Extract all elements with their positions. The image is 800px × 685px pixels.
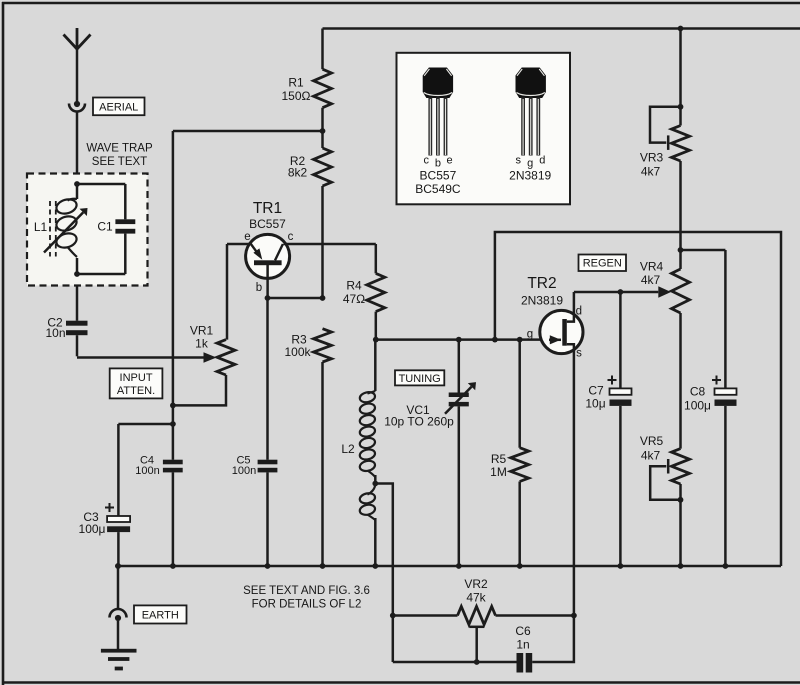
wire TR1 base lead bbox=[266, 265, 269, 298]
svg-text:4k7: 4k7 bbox=[641, 165, 661, 179]
label C6 1n bbox=[515, 624, 531, 652]
node A bbox=[320, 128, 326, 134]
label box TUNING bbox=[395, 370, 444, 385]
capacitor C3 electrolytic bbox=[107, 516, 130, 566]
TO-92 package 2N3819 bbox=[516, 68, 546, 156]
inductor L2 bbox=[359, 340, 376, 484]
svg-text:e: e bbox=[244, 231, 250, 243]
svg-text:ATTEN.: ATTEN. bbox=[117, 385, 155, 397]
svg-text:e: e bbox=[446, 155, 452, 167]
C7 plus sign bbox=[608, 376, 617, 385]
svg-text:c: c bbox=[423, 155, 429, 167]
capacitor C1 bbox=[115, 184, 135, 274]
node R5 top bbox=[517, 337, 523, 343]
label C4 100n bbox=[135, 455, 159, 478]
node C4 ground bbox=[170, 563, 176, 569]
wire VR3-VR4 node to C8 bbox=[681, 249, 726, 252]
potentiometer VR1 bbox=[173, 340, 235, 406]
node R3 ground bbox=[320, 563, 326, 569]
label R1 150&#937; bbox=[282, 76, 311, 104]
resistor R4 bbox=[367, 244, 385, 340]
node VC1 ground bbox=[456, 563, 462, 569]
node C3 branch bbox=[170, 421, 176, 427]
wire bias rail bbox=[172, 131, 175, 460]
label box AERIAL bbox=[93, 98, 145, 116]
svg-text:b: b bbox=[256, 282, 262, 294]
wire C3 branch bbox=[118, 424, 172, 516]
wire TR2 drain bbox=[567, 286, 671, 321]
capacitor C8 electrolytic bbox=[715, 250, 737, 566]
svg-text:INPUT: INPUT bbox=[120, 372, 153, 384]
wire earth return link bbox=[495, 232, 781, 566]
label C3 100&#956; bbox=[79, 510, 106, 536]
label box INPUT ATTEN bbox=[110, 368, 163, 398]
svg-text:TR2: TR2 bbox=[527, 275, 556, 292]
node R4-L2 bbox=[373, 337, 379, 343]
wire C2 to VR1 wiper bbox=[77, 335, 217, 363]
svg-text:10p TO 260p: 10p TO 260p bbox=[384, 415, 454, 429]
label C5 100n bbox=[232, 455, 256, 478]
node VR2 left bbox=[390, 613, 396, 619]
node VR3 top loop bbox=[678, 104, 684, 110]
svg-text:BC549C: BC549C bbox=[415, 182, 461, 196]
svg-text:47k: 47k bbox=[466, 591, 486, 605]
wire ground rail bbox=[118, 565, 781, 568]
svg-text:TUNING: TUNING bbox=[399, 373, 441, 385]
label 2N3819 bbox=[509, 169, 551, 183]
svg-text:4k7: 4k7 bbox=[641, 449, 661, 463]
label C8 100&#956; bbox=[684, 385, 711, 413]
label R2 8k2 bbox=[288, 154, 308, 180]
node gate-ground-link bbox=[492, 337, 498, 343]
svg-text:WAVE TRAP: WAVE TRAP bbox=[86, 143, 153, 155]
label pins c b e bbox=[423, 155, 452, 170]
svg-text:100k: 100k bbox=[284, 345, 311, 359]
svg-text:VR5: VR5 bbox=[640, 434, 664, 448]
svg-text:R1: R1 bbox=[288, 76, 304, 90]
svg-text:FOR DETAILS OF L2: FOR DETAILS OF L2 bbox=[252, 599, 362, 611]
svg-text:AERIAL: AERIAL bbox=[99, 101, 138, 113]
wire VR3 to VR4 bbox=[679, 161, 682, 269]
variable capacitor VC1 bbox=[445, 340, 476, 566]
label L1 bbox=[34, 220, 48, 234]
node L2 tap bbox=[372, 481, 378, 487]
node wave trap bottom bbox=[74, 271, 80, 277]
node VR1 bottom to rail bbox=[170, 403, 176, 409]
resistor R3 bbox=[314, 329, 332, 566]
node earth rail left bbox=[115, 563, 121, 569]
label C7 10&#956; bbox=[585, 384, 605, 411]
potentiometer VR5 bbox=[650, 449, 689, 566]
svg-text:C6: C6 bbox=[515, 624, 531, 638]
capacitor C4 bbox=[163, 460, 183, 566]
svg-text:100n: 100n bbox=[232, 465, 256, 477]
wire TR1 emitter bbox=[227, 244, 250, 340]
L1 adjustable core dashed lines bbox=[50, 201, 56, 257]
node L2 ground bbox=[372, 563, 378, 569]
label SEE TEXT note bbox=[243, 585, 370, 611]
resistor R1 bbox=[314, 29, 332, 132]
label TR2 pins bbox=[527, 306, 582, 360]
label VC1 value bbox=[384, 403, 454, 429]
potentiometer VR3 bbox=[650, 29, 690, 162]
svg-text:4k7: 4k7 bbox=[641, 273, 661, 287]
svg-text:VR3: VR3 bbox=[640, 151, 664, 165]
node VC1 top bbox=[456, 337, 462, 343]
node VR5 ground bbox=[678, 563, 684, 569]
svg-text:47Ω: 47Ω bbox=[343, 292, 365, 306]
svg-text:VR2: VR2 bbox=[464, 577, 488, 591]
resistor R2 bbox=[314, 131, 332, 298]
svg-text:C7: C7 bbox=[588, 384, 604, 398]
L1 adjust arrow bbox=[44, 208, 88, 253]
label VR3 4k7 bbox=[640, 151, 664, 179]
svg-text:8k2: 8k2 bbox=[288, 166, 308, 180]
earth terminal socket bbox=[110, 566, 127, 621]
svg-text:L1: L1 bbox=[34, 220, 48, 234]
label BC557 BC549C bbox=[415, 169, 461, 196]
label TR1 pins bbox=[244, 231, 293, 294]
node C3 ground bbox=[115, 563, 121, 569]
svg-text:SEE TEXT: SEE TEXT bbox=[92, 156, 147, 168]
resistor R5 bbox=[511, 340, 529, 566]
label TR1 bbox=[249, 200, 286, 231]
label box EARTH bbox=[134, 605, 187, 623]
potentiometer VR4 bbox=[672, 269, 690, 313]
wire wave trap bottom bbox=[77, 273, 125, 276]
capacitor C6 bbox=[393, 653, 532, 673]
svg-text:BC557: BC557 bbox=[249, 217, 286, 231]
node drain-C7 bbox=[618, 289, 624, 295]
svg-text:SEE TEXT AND FIG. 3.6: SEE TEXT AND FIG. 3.6 bbox=[243, 585, 370, 597]
svg-text:C1: C1 bbox=[97, 220, 113, 234]
label C1 bbox=[97, 220, 113, 234]
node wave trap top bbox=[74, 181, 80, 187]
node VR5 bottom loop bbox=[678, 497, 684, 503]
svg-text:REGEN: REGEN bbox=[583, 258, 622, 270]
node base-R2-R3 bbox=[320, 295, 326, 301]
potentiometer VR2 bbox=[393, 607, 574, 663]
label L2 bbox=[341, 442, 355, 456]
label VR5 4k7 bbox=[640, 434, 664, 463]
wire TR1 collector bbox=[284, 243, 376, 246]
svg-text:C8: C8 bbox=[690, 385, 706, 399]
svg-text:R4: R4 bbox=[346, 279, 362, 293]
capacitor C5 bbox=[258, 298, 278, 566]
label VR2 47k bbox=[464, 577, 488, 605]
wire wave trap to C2 bbox=[76, 286, 79, 321]
wire node A horizontal bbox=[173, 130, 323, 133]
svg-text:2N3819: 2N3819 bbox=[509, 169, 551, 183]
svg-text:d: d bbox=[539, 155, 545, 167]
svg-text:100μ: 100μ bbox=[684, 399, 711, 413]
node supply-VR3 bbox=[678, 26, 684, 32]
label pins s g d bbox=[515, 155, 545, 170]
svg-text:VR1: VR1 bbox=[190, 324, 214, 338]
svg-text:BC557: BC557 bbox=[420, 169, 457, 183]
label R5 1M bbox=[490, 452, 507, 479]
wire top supply rail bbox=[323, 27, 800, 30]
label box REGEN bbox=[579, 255, 627, 272]
wire VR4 to VR5 bbox=[679, 313, 682, 449]
wire TR2 source bbox=[532, 344, 574, 662]
capacitor C2 bbox=[66, 321, 88, 336]
wire TR1 base link bbox=[268, 297, 323, 300]
antenna aerial symbol bbox=[64, 28, 91, 104]
transistor TR1 BC557 bbox=[246, 234, 290, 278]
node source-VR2 bbox=[571, 613, 577, 619]
wire aerial to wave trap bbox=[76, 113, 79, 185]
svg-text:c: c bbox=[288, 231, 294, 243]
capacitor C7 electrolytic bbox=[610, 292, 632, 566]
svg-text:10μ: 10μ bbox=[585, 397, 605, 411]
svg-text:100μ: 100μ bbox=[79, 522, 106, 536]
svg-text:d: d bbox=[576, 306, 582, 318]
svg-text:s: s bbox=[576, 348, 582, 360]
svg-text:150Ω: 150Ω bbox=[282, 89, 311, 103]
label C2 10n bbox=[45, 316, 65, 341]
svg-text:2N3819: 2N3819 bbox=[521, 294, 563, 308]
wire wave trap top bbox=[77, 183, 125, 186]
inductor L2 lower winding bbox=[359, 484, 376, 567]
wire TR2 gate net bbox=[376, 338, 550, 341]
node VR3-VR4-C8 bbox=[678, 247, 684, 253]
node TR1 base-C5 bbox=[265, 295, 271, 301]
svg-text:TR1: TR1 bbox=[253, 200, 282, 217]
wave trap dashed box bbox=[27, 174, 148, 286]
svg-text:L2: L2 bbox=[341, 442, 355, 456]
inductor L1 bbox=[55, 184, 79, 274]
label R3 100k bbox=[284, 333, 311, 360]
svg-text:1k: 1k bbox=[195, 337, 209, 351]
TO-92 package BC557 bbox=[423, 68, 453, 156]
label WAVE TRAP SEE TEXT bbox=[86, 143, 153, 169]
transistor TR2 2N3819 bbox=[540, 310, 583, 353]
node R5 ground bbox=[517, 563, 523, 569]
svg-text:10n: 10n bbox=[45, 326, 65, 340]
label VR1 1k bbox=[190, 324, 214, 351]
ground symbol bbox=[101, 621, 137, 670]
node VR2 wiper bottom bbox=[474, 659, 480, 665]
label TR2 bbox=[521, 275, 563, 308]
C3 plus sign bbox=[105, 503, 114, 512]
svg-text:EARTH: EARTH bbox=[142, 609, 179, 621]
C8 plus sign bbox=[712, 376, 721, 385]
label VR4 4k7 bbox=[640, 260, 664, 288]
node C8 ground bbox=[723, 563, 729, 569]
svg-text:1M: 1M bbox=[490, 465, 507, 479]
wire L2 tap to VR2 bbox=[375, 484, 393, 663]
label R4 47&#937; bbox=[343, 279, 365, 307]
svg-text:100n: 100n bbox=[135, 465, 159, 477]
svg-text:R5: R5 bbox=[491, 452, 507, 466]
aerial terminal socket bbox=[69, 101, 85, 112]
node C7 ground bbox=[618, 563, 624, 569]
svg-text:s: s bbox=[515, 155, 521, 167]
svg-text:g: g bbox=[527, 329, 533, 341]
svg-text:1n: 1n bbox=[516, 638, 529, 652]
node C5 ground bbox=[265, 563, 271, 569]
transistor package box bbox=[397, 53, 571, 205]
svg-text:VR4: VR4 bbox=[640, 260, 664, 274]
